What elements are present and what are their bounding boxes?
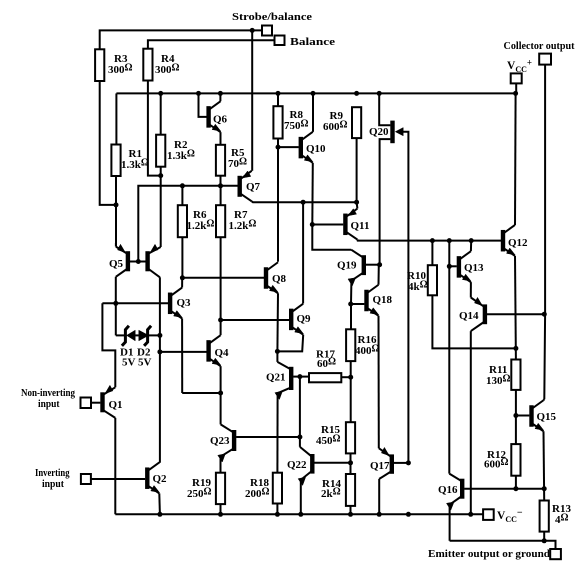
resistor R5 70ohm (216, 145, 247, 176)
wire D1 left lead (116, 334, 127, 336)
wire Q6 emitter lead to R5 (220, 132, 222, 145)
svg-text:Balance: Balance (290, 36, 335, 48)
junction Q4 base node (157, 349, 162, 354)
wire R6 top lead (181, 186, 183, 205)
transistor Q2 (147, 462, 167, 493)
wire R8 bottom lead down to Q8 collector (277, 139, 279, 262)
wire R4 top to Balance (148, 40, 275, 48)
wire Q4 emitter lead (220, 366, 222, 393)
junction R15/R14/Q22 base node (348, 460, 353, 465)
resistor R11 130ohm (486, 360, 521, 390)
transistor Q8 (266, 262, 287, 293)
wire Q1 lower lead to rail (114, 418, 116, 514)
svg-text:Emitter output or ground: Emitter output or ground (428, 549, 550, 560)
resistor R16 400ohm (346, 329, 379, 361)
terminal Strobe/balance (262, 26, 272, 36)
transistor Q23 (210, 424, 234, 462)
svg-text:Q13: Q13 (464, 262, 484, 274)
wire Q6 base leg (199, 93, 207, 117)
junction Q21 base node (297, 374, 302, 379)
wire Q13 emitter to Q14 emitter (470, 282, 472, 297)
junction rail-Q14 collector (468, 512, 473, 517)
wire Q5 left emitter up (115, 243, 117, 247)
junction R1/R3 node (114, 202, 119, 207)
wire Q8 emitter down (276, 293, 279, 351)
wire R6 bottom lead (181, 237, 183, 278)
junction rail-Q2 (157, 512, 162, 517)
wire R3 bottom lead (100, 81, 114, 205)
junction R7/Q4/Q9 node (218, 318, 223, 323)
junction R12/Q16 base node (513, 486, 518, 491)
junction Q19-base/Q18-collector/Q20 node (377, 262, 382, 267)
wire Q18 collector lead (378, 265, 380, 285)
junction Q5 bases node (136, 259, 141, 264)
svg-text:Q19: Q19 (337, 260, 357, 272)
wire R4 bottom lead (148, 81, 159, 176)
wire left detour to Q1 emitter (102, 303, 115, 387)
svg-text:Q1: Q1 (109, 399, 123, 411)
wire Q7 collector line (252, 200, 357, 203)
terminal Balance (275, 36, 285, 46)
svg-text:5V: 5V (138, 357, 152, 369)
junction R16/R17/R15 node (348, 375, 353, 380)
wire Q9 base line (221, 319, 290, 321)
junction Q13 base node (447, 264, 452, 269)
wire Q16 base line (464, 488, 544, 490)
terminal Vcc+ (511, 73, 522, 83)
wire R1 bottom lead to Q5 (115, 176, 117, 246)
svg-text:Q23: Q23 (210, 435, 230, 447)
junction R6/Q3 collector node (180, 275, 185, 280)
resistor R7 1.2kohm (216, 205, 256, 237)
wire Q13 collector lead (470, 241, 472, 252)
svg-text:Q17: Q17 (370, 460, 390, 472)
transistor Q1 (103, 385, 123, 418)
svg-text:Q21: Q21 (266, 372, 286, 384)
wire Q10 base line (278, 146, 299, 148)
wire Q3 collector lead (181, 278, 183, 288)
wire R19 bottom lead (220, 504, 222, 514)
wire Emitter output line (450, 541, 556, 549)
junction R8/Q10 base node (276, 145, 281, 150)
wire R8 top lead (277, 93, 279, 106)
transistor Q14 (459, 297, 485, 331)
junction R10/R11/Q12 node (513, 346, 518, 351)
resistor R13 4ohm (540, 501, 572, 532)
wire Q21 collector stub (276, 351, 278, 362)
wire Q23 emitter lead (220, 457, 222, 473)
wire Q19 base line (366, 264, 380, 266)
wire R7 bottom lead (220, 237, 222, 320)
junction Q14 base node (542, 312, 547, 317)
wire R5 bottom lead (220, 176, 222, 186)
junction Q3-base/D1/Q1 node (113, 301, 118, 306)
wire Q22 emitter lead (300, 480, 302, 514)
wire Q12 emitter down to R11 (514, 256, 517, 360)
wire Q14 collector down to rail (470, 331, 472, 514)
wire Q5 right collector down to Q2 collector (159, 277, 161, 462)
svg-text:Q4: Q4 (215, 347, 230, 359)
wire Vcc+ terminal lead (515, 83, 517, 93)
junction Q8/Q9/Q21 emitters node (275, 349, 280, 354)
wire R2 bottom lead (160, 167, 162, 176)
wire Q23 base line (236, 436, 300, 438)
junction Q18 base node (348, 302, 353, 307)
wire Q20 right lead down to Q17 base (403, 132, 408, 463)
wire Q3 emitter down (181, 319, 183, 393)
wire Q11 base to Q19 collector jog (312, 225, 351, 250)
wire Q6 collector lead (219, 93, 221, 101)
svg-text:Q22: Q22 (287, 459, 307, 471)
svg-text:input: input (38, 398, 60, 410)
wire Collector output rail (543, 65, 546, 400)
svg-text:Q7: Q7 (246, 181, 261, 193)
junction rail-R14 (348, 512, 353, 517)
wire Q13 base drop (448, 241, 450, 474)
wire Q14 base line (487, 313, 544, 315)
wire Q16 emitter down to output line (449, 505, 451, 541)
junction strobe node (250, 28, 255, 33)
junction R9/Q11 collector node (354, 200, 359, 205)
wire bus corner down to R1 top (115, 93, 117, 144)
transistor Q22 (287, 447, 312, 486)
transistor Q5 (right half) (148, 244, 161, 277)
junction bus-Q6 collector (218, 91, 223, 96)
junction R5/R7 node (218, 183, 223, 188)
wire Q5 base tie (128, 261, 148, 263)
wire R14 bottom lead (350, 506, 352, 514)
wire Q4 base line (160, 351, 207, 353)
junction bus-Q20 (377, 91, 382, 96)
transistor Q12 (503, 225, 528, 256)
junction rail-Q22 (298, 512, 303, 517)
svg-text:Strobe/balance: Strobe/balance (232, 11, 312, 23)
svg-text:Q14: Q14 (459, 310, 479, 322)
wire V+ bus (116, 92, 515, 94)
junction D2/Q5 node (157, 333, 162, 338)
svg-text:Q3: Q3 (177, 297, 192, 309)
wire Q9 emitter lead (277, 335, 303, 352)
junction Q23/Q21/Q22 base node (297, 435, 302, 440)
wire Q7 emitter to strobe line (251, 169, 253, 172)
svg-text:Q18: Q18 (373, 294, 393, 306)
junction bus-Vcc+ (513, 91, 518, 96)
terminal Collector output (539, 54, 551, 65)
wire Q12 collector to Vcc+ (514, 93, 517, 225)
transistor Q11 (345, 209, 369, 240)
wire Q15 base line (516, 415, 530, 417)
junction Q10-emitter/Q11-base node (310, 222, 315, 227)
wire D2 right lead (149, 334, 160, 336)
junction Q4-emitter/Q23 node (218, 391, 223, 396)
transistor Q3 (170, 288, 191, 319)
transistor Q9 (291, 304, 311, 335)
wire Q15 emitter down to R13 (543, 431, 546, 500)
terminal Non-inverting input (81, 398, 92, 409)
svg-text:Q2: Q2 (153, 473, 168, 485)
wire Q5 right emitter up to R2/R4 (160, 176, 162, 247)
resistor R3 300ohm (95, 49, 132, 81)
transistor Q5 (left half) (109, 244, 128, 276)
diode D2 (5V zener) (137, 326, 152, 369)
wire Q21 base down to Q22 collector (299, 377, 301, 447)
wire Q17 collector lead (378, 479, 380, 514)
wire Q21 base line (293, 376, 300, 378)
svg-text:Q9: Q9 (297, 313, 312, 325)
svg-text:Q8: Q8 (272, 273, 287, 285)
wire Q5-bases / R5 / R6 / R7 / Q7-base line (138, 186, 237, 262)
wire Q4 collector lead (220, 320, 222, 335)
svg-text:Q20: Q20 (369, 126, 389, 138)
wire Q15 collector lead (543, 399, 546, 400)
resistor R8 750ohm (273, 106, 308, 138)
transistor Q16 (438, 474, 462, 511)
wire Q13 base line (449, 265, 457, 267)
transistor Q13 (459, 251, 484, 282)
wire R18 bottom lead (276, 504, 278, 515)
junction bus-Q10 collector (311, 91, 316, 96)
resistor R2 1.3kohm (156, 135, 195, 167)
wire Q2 emitter lead (158, 493, 161, 514)
wire Q21 emitter down to R18 (276, 393, 278, 473)
wire Q11 emitter line to Q12 base (357, 240, 501, 241)
wire Q3/Q4 emitter join (182, 392, 220, 394)
svg-text:Q15: Q15 (537, 411, 557, 423)
wire R11 bottom lead (515, 390, 517, 444)
svg-text:Q10: Q10 (306, 143, 326, 155)
wire Q18 emitter down to Q17 (378, 316, 380, 448)
wire Q19 emitter down to R16 (350, 281, 352, 330)
wire Q18 base line (351, 303, 365, 305)
svg-text:Q5: Q5 (109, 258, 124, 270)
transistor Q21 (266, 362, 291, 400)
svg-text:5V: 5V (122, 357, 136, 369)
transistor Q4 (209, 335, 229, 366)
transistor Q15 (532, 400, 557, 431)
transistor Q10 (301, 132, 326, 163)
junction bus-R9 (354, 91, 359, 96)
wire R7 top lead (220, 186, 222, 205)
diode D1 (5V zener) (120, 326, 139, 369)
wire R9 bottom lead (356, 138, 358, 202)
junction rail-R19 (218, 512, 223, 517)
junction Q15 emitter / Q16 base node (542, 486, 547, 491)
resistor R6 1.2kohm (178, 205, 215, 237)
resistor R10 4kohm (407, 265, 437, 295)
wire R2 top lead (160, 93, 162, 134)
wire Q10 emitter to Q11 base (311, 163, 314, 225)
wire R10 bottom lead (432, 295, 516, 348)
svg-text:Collector output: Collector output (504, 40, 575, 52)
wire Q8 base line (182, 277, 264, 279)
wire Q10 collector lead (312, 93, 314, 131)
resistor R4 300ohm (143, 49, 179, 81)
junction rail-Q17 base line (406, 512, 411, 517)
junction bus-R8 (276, 91, 281, 96)
resistor R12 600ohm (484, 444, 521, 476)
terminal Vcc- (483, 509, 494, 520)
wire R3 top to Strobe/balance (100, 30, 262, 49)
junction R6 top node (180, 183, 185, 188)
wire Q11 base line (312, 224, 343, 226)
transistor Q19 (337, 250, 364, 286)
wire Q5 left collector down (115, 277, 117, 304)
terminal Inverting input (81, 474, 91, 484)
transistor Q7 (240, 171, 261, 202)
terminal Emitter output (550, 549, 561, 559)
wire R16 bottom lead (350, 361, 352, 422)
junction Q17 base node (406, 460, 411, 465)
junction Q13 collector node (469, 238, 474, 243)
resistor R17 60ohm (309, 349, 341, 383)
wire strobe line down to Q7 emitter (251, 30, 253, 170)
transistor Q6 (209, 101, 228, 132)
wire Q1 base lead (91, 402, 100, 404)
junction Q13 branch node (447, 238, 452, 243)
wire R10 top lead (431, 241, 433, 266)
junction rail-Q17 collector (377, 512, 382, 517)
resistor R19 250ohm (187, 473, 225, 504)
wire Q20 upper-left lead (379, 93, 390, 125)
transistor Q17 (370, 447, 392, 479)
wire node to D1 left lead (115, 303, 117, 335)
junction bus-Q6 base (196, 91, 201, 96)
resistor R14 2kohm (321, 474, 355, 506)
wire Q22 base line (314, 462, 350, 464)
svg-text:Q16: Q16 (438, 484, 458, 496)
svg-text:Q11: Q11 (351, 220, 370, 232)
resistor R9 600ohm (323, 107, 361, 138)
junction bus-R2 (158, 91, 163, 96)
wire Q23 collector lead (220, 393, 222, 424)
junction R10 top node (430, 238, 435, 243)
wire Q17 base line (394, 462, 409, 464)
svg-text:input: input (42, 478, 64, 490)
wire V- rail (115, 513, 483, 515)
wire R13 bottom lead (543, 532, 545, 541)
wire Q2 base lead (91, 478, 145, 480)
svg-text:Q12: Q12 (508, 237, 528, 249)
wire R17 left lead (300, 376, 309, 378)
transistor Q20 (369, 121, 403, 144)
wire Q3 base line (102, 302, 168, 304)
wire R12 bottom lead (515, 476, 517, 489)
wire R17 right lead (341, 376, 350, 378)
svg-text:Q6: Q6 (213, 114, 228, 126)
resistor R18 200ohm (245, 473, 282, 504)
transistor Q18 (367, 285, 393, 316)
junction R13/output node (542, 538, 547, 543)
resistor R15 450ohm (316, 422, 355, 453)
wire Q9 collector lead (302, 202, 304, 303)
resistor R1 1.3kohm (111, 145, 148, 177)
wire Q2 collector lead (158, 461, 161, 463)
junction rail-R18 (275, 512, 280, 517)
junction Q9 collector node (301, 200, 306, 205)
wire Q20 lower-left lead down to Q19 base (380, 139, 391, 265)
junction R2/R4 node (158, 173, 163, 178)
wire Q11 collector lead (356, 202, 359, 208)
junction R11/R12/Q15 base node (513, 413, 518, 418)
wire R15 bottom lead (350, 453, 352, 474)
